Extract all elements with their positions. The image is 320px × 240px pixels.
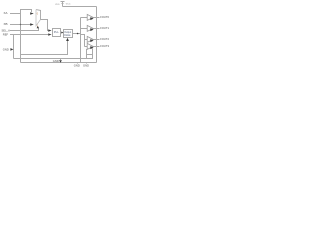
wire bottom rail 2 bbox=[21, 62, 97, 64]
ground symbol left bbox=[10, 48, 13, 51]
wire mux output bbox=[41, 20, 49, 31]
buffer U4 triangle bbox=[87, 14, 93, 20]
arrowhead buffer3 bbox=[90, 39, 93, 42]
wire branch bus2 bbox=[81, 35, 85, 47]
junction dot XB crystal bbox=[20, 24, 21, 25]
output divider box U3 bbox=[64, 30, 73, 38]
junction dot divider output bbox=[77, 33, 79, 35]
svg-text:XB: XB bbox=[4, 22, 8, 26]
svg-text:Divide: Divide bbox=[64, 35, 71, 37]
svg-text:FOUT1: FOUT1 bbox=[100, 26, 109, 30]
arrowhead mux input 0 bbox=[30, 12, 34, 14]
wire VCC rail top bbox=[63, 6, 97, 8]
wire rail2 stub a bbox=[77, 63, 79, 64]
wire branch to buffer4 bbox=[85, 46, 88, 48]
svg-text:FOUT0: FOUT0 bbox=[100, 15, 109, 19]
wire bottom rail 1 bbox=[14, 49, 93, 59]
svg-text:GND: GND bbox=[74, 63, 80, 67]
wire divider output bbox=[72, 33, 80, 35]
svg-text:REF: REF bbox=[3, 33, 9, 37]
wire SEL_A bbox=[10, 28, 39, 31]
wire rail2 stub b bbox=[86, 63, 88, 64]
svg-text:VCC: VCC bbox=[66, 4, 71, 6]
wire FOUT3 bbox=[93, 46, 99, 48]
svg-text:VDD: VDD bbox=[55, 4, 60, 6]
svg-text:FOUT2: FOUT2 bbox=[100, 37, 109, 41]
wire divider bottom stub bbox=[21, 41, 68, 55]
wire XB bbox=[10, 24, 30, 26]
svg-text:SEL_A: SEL_A bbox=[2, 28, 11, 32]
wire left vertical X node bbox=[20, 14, 22, 63]
wire FOUT0 bbox=[93, 17, 99, 19]
buffer U5 triangle bbox=[87, 25, 93, 31]
buffer U6 triangle bbox=[87, 36, 93, 42]
svg-text:GND: GND bbox=[53, 59, 59, 63]
arrowhead buffer4 bbox=[90, 46, 93, 49]
svg-text:Output: Output bbox=[64, 31, 71, 34]
svg-text:GND: GND bbox=[3, 47, 9, 51]
wire crystal loop bbox=[21, 10, 32, 14]
wire VCC right vertical bbox=[96, 7, 98, 63]
wire branch to buffer3 bbox=[85, 39, 88, 41]
mux M1 bbox=[36, 10, 41, 20]
power symbol VCC bbox=[61, 2, 65, 7]
arrowhead buffer2 bbox=[90, 28, 93, 31]
buffer U7 triangle bbox=[87, 43, 93, 49]
wire FOUT1 bbox=[93, 28, 99, 30]
ground symbol bottom center bbox=[59, 60, 62, 63]
arrowhead divider bottom bbox=[66, 38, 69, 41]
svg-text:GND: GND bbox=[83, 63, 89, 67]
wire fanout bus bbox=[80, 18, 82, 63]
wire branch to buffer1 bbox=[81, 17, 88, 19]
wire branch to buffer2 bbox=[81, 28, 88, 30]
svg-text:PLL: PLL bbox=[54, 30, 59, 34]
ground symbol stub bottom center bbox=[60, 59, 62, 61]
arrowhead PLL input 1 bbox=[48, 29, 51, 31]
wire PLL to divider bbox=[60, 32, 61, 34]
wire REF bbox=[10, 34, 48, 36]
arrowhead mux input 1 bbox=[30, 23, 34, 25]
wire buffer4 inverted out down bbox=[87, 49, 93, 59]
wire FOUT2 bbox=[93, 39, 99, 41]
wire XA bbox=[10, 13, 21, 15]
svg-text:FOUT3: FOUT3 bbox=[100, 44, 109, 48]
PLL box U2 bbox=[53, 29, 61, 37]
arrowhead buffer1 bbox=[90, 17, 93, 20]
arrowhead select into mux bbox=[37, 26, 39, 29]
arrowhead divider input bbox=[61, 32, 63, 34]
wire GND left vertical bbox=[13, 35, 15, 59]
svg-text:XA: XA bbox=[4, 11, 8, 15]
arrowhead PLL input 2 bbox=[48, 33, 51, 35]
